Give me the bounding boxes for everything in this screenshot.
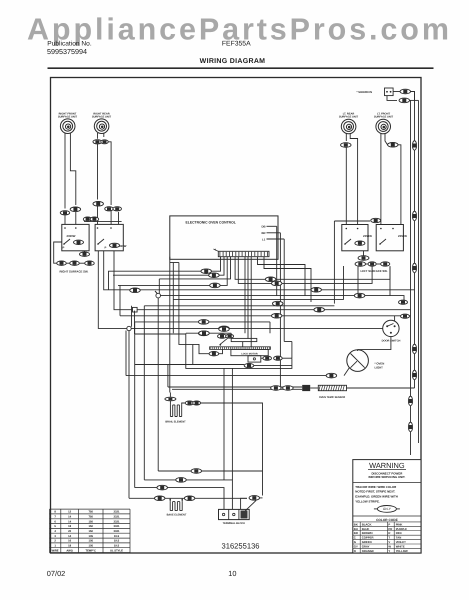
svg-text:WARNING: WARNING <box>369 461 405 470</box>
wire RF right lead <box>70 133 75 205</box>
svg-text:LIGHT: LIGHT <box>375 365 384 369</box>
wire bottom bus 4 <box>129 497 247 499</box>
svg-text:TRACER WIRE: WIRE COLOR: TRACER WIRE: WIRE COLOR <box>355 485 397 489</box>
wire RR right lead <box>103 133 105 137</box>
connector <box>412 344 416 354</box>
connector <box>199 331 210 336</box>
wire LR right lead <box>350 133 357 224</box>
svg-text:SURFACE UNIT: SURFACE UNIT <box>58 116 78 119</box>
connector <box>201 269 212 274</box>
svg-text:3321: 3321 <box>114 511 120 514</box>
wire bottom bus 1 <box>158 470 262 472</box>
svg-text:19.5: 19.5 <box>114 545 120 548</box>
connector <box>226 334 234 338</box>
wire <box>291 342 293 359</box>
wire RR left lead <box>97 133 99 139</box>
svg-text:BK: BK <box>354 522 358 526</box>
title underline <box>48 67 434 69</box>
wire <box>169 498 171 501</box>
svg-text:750: 750 <box>88 511 93 514</box>
wire drop v1 <box>125 331 127 376</box>
door switch S3 <box>383 320 399 336</box>
wire <box>261 357 263 359</box>
svg-text:316255136: 316255136 <box>222 542 260 551</box>
connector <box>219 326 230 331</box>
wire broil drop <box>169 257 171 393</box>
svg-text:BR: BR <box>354 531 358 535</box>
wire <box>134 311 136 334</box>
wire bus BR2 <box>114 251 411 310</box>
wire bottom bus 3 <box>135 488 224 510</box>
splice node S2 <box>127 326 131 330</box>
connector <box>311 288 322 293</box>
svg-text:C: C <box>354 536 356 540</box>
svg-text:PURPLE: PURPLE <box>396 527 407 531</box>
wire <box>394 316 396 321</box>
wire diagonal into block <box>245 501 257 512</box>
wire plug bottom <box>387 96 397 101</box>
junction node A <box>156 293 161 298</box>
wire <box>282 357 292 359</box>
surface unit LF coil <box>376 119 391 134</box>
svg-text:P: P <box>63 246 65 250</box>
connector <box>265 277 276 282</box>
wire right vertical 3 <box>410 100 412 455</box>
connector <box>85 261 95 265</box>
svg-text:RED: RED <box>396 531 402 535</box>
connector <box>83 217 92 221</box>
svg-text:BLACK: BLACK <box>362 522 372 526</box>
wire drop 6 <box>179 263 193 345</box>
wire between switches <box>84 220 122 222</box>
connector <box>70 261 80 265</box>
color code table <box>353 522 421 553</box>
connector <box>110 243 120 247</box>
svg-text:105: 105 <box>88 535 93 538</box>
connector <box>358 256 369 261</box>
wire switch left drop <box>54 242 62 263</box>
wire <box>193 344 209 353</box>
wire <box>169 401 171 405</box>
connector <box>154 496 165 501</box>
wire <box>334 220 370 222</box>
wire <box>169 393 171 397</box>
connector <box>157 485 168 490</box>
connector <box>249 496 259 501</box>
connector <box>271 386 282 391</box>
connector <box>93 202 104 207</box>
svg-text:BR: BR <box>262 231 266 235</box>
svg-text:18: 18 <box>68 545 71 548</box>
wire <box>398 145 401 225</box>
connector <box>341 143 352 148</box>
wire <box>366 263 369 265</box>
connector <box>105 207 114 211</box>
svg-text:12: 12 <box>68 511 71 514</box>
connector <box>272 301 283 306</box>
EOC connector strip P1 <box>218 251 269 256</box>
svg-text:5995375994: 5995375994 <box>47 47 87 56</box>
wire pin 9 <box>247 257 249 339</box>
wire bus BR3 <box>98 251 382 329</box>
connector <box>60 211 70 215</box>
surface unit LR coil <box>341 119 356 134</box>
wire drop v3 <box>134 322 136 488</box>
svg-text:TERMINAL BLOCK: TERMINAL BLOCK <box>223 522 246 525</box>
left rear surface switch <box>342 225 368 251</box>
svg-text:3321: 3321 <box>114 516 120 519</box>
wire pin 12 <box>258 257 306 296</box>
connector <box>209 273 220 278</box>
connector <box>381 262 390 266</box>
right rear surface switch <box>62 224 89 250</box>
wire RF left lead <box>64 133 66 209</box>
connector <box>412 370 416 380</box>
wire BR lead <box>267 232 281 234</box>
connector <box>400 89 411 94</box>
wire <box>113 309 115 311</box>
wire <box>170 262 179 264</box>
svg-text:GY: GY <box>354 545 358 549</box>
wire sensor left <box>168 386 302 388</box>
svg-text:07/02: 07/02 <box>47 569 66 578</box>
wire LR left lead <box>345 133 347 141</box>
wire LF left lead <box>380 133 382 224</box>
warning box <box>353 460 421 553</box>
svg-text:105: 105 <box>88 545 93 548</box>
wire <box>219 349 223 353</box>
wire <box>254 365 292 367</box>
wire junction riser <box>158 279 160 294</box>
wire pin 14 <box>264 257 311 302</box>
wire pin 8 <box>244 257 246 334</box>
connector <box>408 422 412 432</box>
wire L1 drop <box>283 239 285 342</box>
connector <box>70 207 81 212</box>
wire <box>230 333 232 338</box>
svg-text:L1: L1 <box>262 237 266 241</box>
wire <box>221 334 223 338</box>
wire <box>284 341 292 343</box>
svg-text:UL STYLE: UL STYLE <box>110 549 123 552</box>
connector <box>191 469 202 474</box>
svg-text:2350W: 2350W <box>398 234 407 238</box>
connector <box>90 217 99 221</box>
svg-text:GRAY: GRAY <box>362 545 370 549</box>
connector <box>218 334 227 338</box>
connector <box>184 496 195 501</box>
connector <box>101 140 109 144</box>
connector <box>198 320 209 325</box>
wire <box>108 142 111 205</box>
wire <box>118 212 120 224</box>
connector <box>113 207 122 211</box>
wire bus B1 <box>160 296 404 303</box>
svg-text:105: 105 <box>88 540 93 543</box>
wire <box>405 315 411 317</box>
wire pin 6 <box>238 257 372 284</box>
svg-text:G: G <box>354 540 356 544</box>
connector <box>401 314 410 318</box>
wire <box>241 498 247 509</box>
svg-text:LOCK MOTOR: LOCK MOTOR <box>241 352 258 355</box>
wire sensor right <box>347 387 415 389</box>
connector <box>399 98 410 103</box>
wire lock loop outer <box>186 333 292 368</box>
svg-text:GREEN: GREEN <box>362 540 372 544</box>
wire bus B2 <box>144 305 334 307</box>
svg-text:WIRE: WIRE <box>52 549 59 552</box>
connector <box>176 478 187 483</box>
wire lock to block 1 <box>223 368 225 480</box>
wire L1 lead <box>267 238 285 240</box>
svg-text:Y: Y <box>388 549 390 553</box>
tracer wire example symbol GN-Y <box>374 506 400 513</box>
svg-text:P: P <box>105 246 107 250</box>
wire <box>64 213 66 225</box>
svg-text:2350W: 2350W <box>363 234 372 238</box>
connector <box>93 140 102 144</box>
svg-text:WIRING DIAGRAM: WIRING DIAGRAM <box>200 58 266 65</box>
connector <box>388 143 399 148</box>
connector <box>408 396 412 406</box>
wire to right drop <box>411 92 415 101</box>
svg-text:RIGHT SURFACE SW.: RIGHT SURFACE SW. <box>60 270 89 274</box>
wire <box>376 263 380 265</box>
connector <box>368 262 376 266</box>
svg-text:ELECTRONIC OVEN CONTROL: ELECTRONIC OVEN CONTROL <box>186 220 236 224</box>
splice square S1 <box>133 307 138 312</box>
wire lock loop inner <box>192 344 194 364</box>
connector <box>74 240 84 244</box>
connector <box>274 356 283 360</box>
wire pin 1 <box>109 257 221 290</box>
wire drop v2 <box>128 331 130 499</box>
svg-text:YELLOW: YELLOW <box>396 549 408 553</box>
wire main left drop <box>157 298 159 471</box>
svg-text:W: W <box>388 545 391 549</box>
right front surface switch <box>95 224 123 250</box>
connector <box>185 401 194 405</box>
wire <box>66 262 70 264</box>
wire <box>242 342 244 347</box>
wire <box>119 285 121 315</box>
connector <box>326 373 337 378</box>
svg-text:14: 14 <box>68 535 71 538</box>
svg-text:SURFACE UNIT: SURFACE UNIT <box>92 116 112 119</box>
wire DB drop <box>276 226 278 296</box>
connector <box>399 300 408 304</box>
svg-text:YELLOW STRIPE.: YELLOW STRIPE. <box>355 500 380 504</box>
svg-text:AWG: AWG <box>66 549 72 552</box>
wire BR drop <box>279 233 281 388</box>
wire <box>344 368 350 376</box>
wire <box>363 251 365 256</box>
wire bus B5 <box>135 333 186 335</box>
wire gauge table <box>50 509 131 552</box>
oven light E1 <box>347 350 369 372</box>
svg-text:WHITE: WHITE <box>396 545 405 549</box>
svg-text:3321: 3321 <box>114 520 120 523</box>
wire drop 5 <box>172 263 174 334</box>
surface unit RF coil <box>60 119 75 134</box>
svg-text:DB: DB <box>262 225 266 229</box>
terminal block TB1 <box>219 509 250 519</box>
svg-text:V: V <box>388 540 390 544</box>
wire <box>269 322 271 333</box>
svg-text:LEFT SURFACE SW.: LEFT SURFACE SW. <box>361 269 388 273</box>
svg-text:T: T <box>388 536 390 540</box>
connector <box>193 401 201 405</box>
svg-text:EXAMPLE: GREEN WIRE WITH: EXAMPLE: GREEN WIRE WITH <box>355 495 398 499</box>
wire LF right lead <box>385 133 388 145</box>
lock aux box M <box>248 356 261 362</box>
wire bus B4 <box>135 321 270 323</box>
connector <box>209 352 219 356</box>
wire <box>399 301 405 303</box>
wire switch drop <box>343 266 345 300</box>
wire switch drop 2 <box>357 266 359 296</box>
svg-text:150: 150 <box>88 525 93 528</box>
wire light loop <box>126 375 326 377</box>
svg-text:COPPER: COPPER <box>362 536 374 540</box>
lock rack <box>210 347 271 350</box>
wire DB lead <box>267 225 277 227</box>
svg-text:19.5: 19.5 <box>114 540 120 543</box>
lock cam bar <box>231 338 257 341</box>
wire lock top <box>186 332 231 334</box>
left front surface switch <box>376 225 403 251</box>
connector <box>355 262 366 267</box>
wire <box>357 350 359 351</box>
wire <box>410 99 419 101</box>
wire pin 2 <box>113 257 224 276</box>
connector <box>263 356 272 360</box>
wire <box>182 403 185 405</box>
svg-text:19.5: 19.5 <box>114 535 120 538</box>
wire pin 4 <box>159 257 230 279</box>
connector <box>244 364 254 368</box>
wire switch drop <box>389 266 391 296</box>
wire pin 10 <box>250 257 252 347</box>
svg-text:OVEN TEMP. SENSOR: OVEN TEMP. SENSOR <box>319 396 346 399</box>
svg-text:BROIL ELEMENT: BROIL ELEMENT <box>165 420 186 423</box>
svg-text:18: 18 <box>68 525 71 528</box>
svg-text:FEF355A: FEF355A <box>222 40 251 47</box>
wire lock to block 2 <box>231 368 233 480</box>
connector <box>210 283 221 288</box>
svg-text:750: 750 <box>88 516 93 519</box>
connector <box>412 263 416 273</box>
connector <box>412 141 416 151</box>
svg-text:2350W: 2350W <box>67 234 76 238</box>
svg-text:3321: 3321 <box>114 525 120 528</box>
wire broil return <box>201 403 263 496</box>
svg-text:GN-Y: GN-Y <box>383 507 392 511</box>
connector <box>271 281 282 286</box>
wire sensor left 2 <box>172 388 302 390</box>
wire S2 riser <box>131 306 133 327</box>
svg-text:150: 150 <box>88 520 93 523</box>
wire <box>75 212 77 225</box>
wire <box>84 251 86 252</box>
svg-text:VIOLET: VIOLET <box>396 540 406 544</box>
connector <box>371 218 381 222</box>
svg-text:BU: BU <box>354 527 358 531</box>
wire <box>110 211 112 224</box>
wire bus B3 <box>120 315 405 317</box>
surface unit RR coil <box>94 119 109 134</box>
connector <box>219 327 230 332</box>
connector <box>271 314 282 319</box>
plug P12 <box>385 88 394 96</box>
svg-text:R: R <box>388 531 390 535</box>
svg-text:PR: PR <box>388 527 392 531</box>
lock motor M1 <box>231 349 268 355</box>
wire bottom bus 2 <box>144 480 232 510</box>
svg-text:SURFACE UNIT: SURFACE UNIT <box>374 116 394 119</box>
electronic oven control U1 <box>170 216 278 259</box>
svg-text:BLUE: BLUE <box>362 527 370 531</box>
connector <box>198 331 209 336</box>
wire lock loop bottom <box>135 364 245 366</box>
connector <box>57 261 67 265</box>
svg-text:SURFACE UNIT: SURFACE UNIT <box>339 116 359 119</box>
connector <box>355 241 365 245</box>
svg-text:ORANGE: ORANGE <box>362 549 374 553</box>
wire to oven light <box>358 337 391 350</box>
svg-text:BAKE ELEMENT: BAKE ELEMENT <box>167 513 187 516</box>
wire bus BR1 <box>104 251 415 290</box>
svg-text:BROWN: BROWN <box>362 531 373 535</box>
svg-text:* SHOWN IN: * SHOWN IN <box>357 91 373 94</box>
wire plug to connector <box>393 91 400 93</box>
connector <box>165 397 176 401</box>
svg-text:20: 20 <box>68 530 71 533</box>
svg-text:COLOR CODE: COLOR CODE <box>376 518 398 522</box>
wire <box>97 144 99 200</box>
connector <box>314 307 325 312</box>
wire sensor riser <box>167 365 169 388</box>
wire <box>181 498 183 501</box>
svg-text:14: 14 <box>68 516 71 519</box>
svg-text:3321: 3321 <box>114 530 120 533</box>
connector <box>130 288 141 293</box>
wire pin 5 <box>235 257 390 280</box>
wire right vertical 2 <box>418 100 420 443</box>
svg-text:150: 150 <box>88 530 93 533</box>
svg-text:NOTED FIRST, STRIPE NEXT.: NOTED FIRST, STRIPE NEXT. <box>355 490 395 494</box>
wire <box>97 206 99 224</box>
svg-text:BEFORE SERVICING UNIT.: BEFORE SERVICING UNIT. <box>369 475 406 479</box>
wire <box>345 147 347 224</box>
wire right vertical 1 <box>414 92 416 389</box>
lock switch lever <box>220 338 227 344</box>
svg-text:PINK: PINK <box>396 522 403 526</box>
svg-text:TAN: TAN <box>396 536 402 540</box>
wire <box>260 497 263 499</box>
svg-text:16: 16 <box>68 540 71 543</box>
wire pin 3 <box>118 257 227 286</box>
wire left of switches <box>333 221 335 304</box>
wire <box>79 262 85 264</box>
diagram border <box>51 78 422 554</box>
svg-text:14: 14 <box>68 520 71 523</box>
connector <box>283 386 294 391</box>
connector <box>354 293 365 298</box>
svg-text:P: P <box>388 522 390 526</box>
svg-text:TEMP°C: TEMP°C <box>85 549 96 552</box>
